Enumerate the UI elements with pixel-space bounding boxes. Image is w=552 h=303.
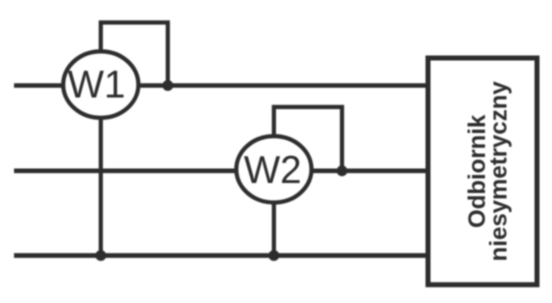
svg-text:W1: W1: [68, 64, 126, 107]
svg-text:W2: W2: [244, 149, 302, 192]
svg-text:niesymetryczny: niesymetryczny: [486, 81, 513, 262]
